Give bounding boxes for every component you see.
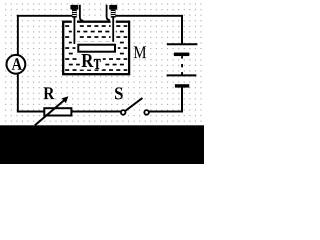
battery B1 [167,44,198,86]
wire left vertical lower [17,74,19,113]
wire top right [115,15,183,17]
terminal post right [107,5,118,20]
wire left vertical upper [17,15,19,55]
label S [115,87,123,99]
wire right vertical upper [181,15,183,44]
label R [44,87,55,99]
wire bottom middle [72,111,122,113]
wire bottom right [149,111,183,113]
wire bottom left [17,111,45,113]
terminal post left [70,5,83,21]
ammeter A [7,55,26,74]
liquid [65,25,127,71]
lead left [72,18,77,45]
rheostat R [35,96,72,125]
label RT [80,54,103,70]
wire top-left horizontal [17,15,73,17]
resistor RT [75,42,117,55]
label M [134,46,146,58]
lead right [111,18,116,45]
calorimeter container M [63,22,129,74]
wire right vertical lower [181,87,183,113]
switch S [121,98,149,115]
